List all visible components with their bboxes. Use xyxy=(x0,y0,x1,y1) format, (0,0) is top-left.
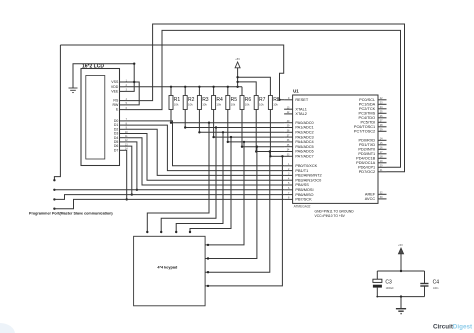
pin 39 PA1/ADC1 xyxy=(284,125,314,130)
svg-text:PC1/SDA: PC1/SDA xyxy=(359,103,376,107)
resistor R6 10k xyxy=(240,96,251,110)
wire cap bottom rail xyxy=(376,295,424,297)
wire keypad col 1 to PA0 xyxy=(146,122,210,234)
pin 20 PD6/ICP1 xyxy=(358,165,386,170)
svg-text:PC0/SCL: PC0/SCL xyxy=(359,98,376,102)
svg-text:Digest: Digest xyxy=(453,323,473,330)
svg-text:PB5/MOSI: PB5/MOSI xyxy=(295,188,313,192)
svg-text:PB1/T1: PB1/T1 xyxy=(295,169,308,173)
svg-text:PA3/ADC3: PA3/ADC3 xyxy=(295,135,313,139)
svg-text:PB7/SCK: PB7/SCK xyxy=(295,198,312,202)
pin 16 PD2/INT0 xyxy=(358,147,386,152)
resistor R7 10k xyxy=(254,96,265,110)
wire R7 to PA6 xyxy=(255,110,284,153)
svg-text:C3: C3 xyxy=(385,279,392,285)
svg-text:PA5/ADC5: PA5/ADC5 xyxy=(295,145,313,149)
svg-text:PC5/TDI: PC5/TDI xyxy=(360,121,375,125)
wire R5 to PA4 xyxy=(227,110,285,144)
ground symbol (decoupling) xyxy=(396,297,406,314)
svg-text:10k: 10k xyxy=(231,103,236,107)
svg-text:PA6/ADC6: PA6/ADC6 xyxy=(295,150,313,154)
wire LCD RS to PD7 xyxy=(125,24,405,172)
pin 14 PD0/RXD xyxy=(359,138,387,143)
resistor R5 10k xyxy=(226,96,237,110)
wire R6 to PA5 xyxy=(241,110,284,148)
svg-text:PD7/OC2: PD7/OC2 xyxy=(359,170,375,174)
svg-text:PA2/ADC2: PA2/ADC2 xyxy=(295,131,313,135)
pin 34 PA6/ADC6 xyxy=(284,149,314,154)
wire R3 to PA2 xyxy=(198,110,284,134)
wire +5V tap to R7 xyxy=(236,81,256,96)
ground symbol (LCD) xyxy=(69,88,78,93)
pin 9 RESET xyxy=(284,97,309,102)
pin 22 PC0/SCL xyxy=(359,97,386,102)
pin 18 PD4/OC1B xyxy=(356,156,386,161)
resistor R1 10k xyxy=(169,96,180,110)
pin 4 PB3/AIN1/OC0 xyxy=(284,177,321,182)
wire programmer bus xyxy=(53,45,60,210)
svg-text:PD4/OC1B: PD4/OC1B xyxy=(356,157,375,161)
svg-text:GND=PIN11 TO GROUND: GND=PIN11 TO GROUND xyxy=(315,209,355,213)
wire cap top rail xyxy=(377,270,424,272)
svg-text:PD5/OC1A: PD5/OC1A xyxy=(356,161,375,165)
logo CircuitDigest xyxy=(433,323,473,330)
wire keypad col 2 to PA1 xyxy=(160,126,217,233)
svg-text:PD0/RXD: PD0/RXD xyxy=(359,139,376,143)
pin 7 PB6/MISO xyxy=(284,192,313,197)
svg-text:AVCC: AVCC xyxy=(365,197,376,201)
svg-text:PD6/ICP1: PD6/ICP1 xyxy=(358,166,375,170)
pin 29 PC7/TOSC2 xyxy=(354,129,387,134)
svg-text:PA7/ADC7: PA7/ADC7 xyxy=(295,155,313,159)
svg-text:C4: C4 xyxy=(433,279,440,285)
svg-text:PA4/ADC4: PA4/ADC4 xyxy=(295,140,314,144)
wire LCD D6 to PB6 xyxy=(125,146,134,196)
svg-text:XTAL1: XTAL1 xyxy=(295,107,306,111)
wire keypad row 4 to PA7 xyxy=(205,155,283,287)
svg-text:VEE: VEE xyxy=(111,90,119,94)
svg-text:D7: D7 xyxy=(114,148,119,152)
svg-text:ATMEGA32: ATMEGA32 xyxy=(294,205,311,209)
pin 2 PB1/T1 xyxy=(284,168,308,173)
svg-text:PD3/INT1: PD3/INT1 xyxy=(358,152,375,156)
capacitor C3 1000uF xyxy=(373,271,394,297)
svg-text:PC4/TDO: PC4/TDO xyxy=(359,116,376,120)
svg-text:+5V: +5V xyxy=(398,243,403,247)
decor xyxy=(0,323,15,333)
svg-text:PC3/TMS: PC3/TMS xyxy=(359,112,376,116)
svg-text:U1: U1 xyxy=(293,89,299,94)
svg-text:RW: RW xyxy=(113,103,119,107)
svg-text:XTAL2: XTAL2 xyxy=(295,112,306,116)
wire programmer MISO to PB6 xyxy=(54,195,284,200)
svg-text:10k: 10k xyxy=(174,103,179,107)
wire LCD D5 to PB5 xyxy=(125,142,139,191)
svg-text:16*2 LCD: 16*2 LCD xyxy=(82,64,104,70)
svg-text:PD2/INT0: PD2/INT0 xyxy=(358,148,375,152)
pin 23 PC1/SDA xyxy=(359,102,387,107)
svg-text:PB3/AIN1/OC0: PB3/AIN1/OC0 xyxy=(295,178,321,182)
pin 28 PC6/TOSC1 xyxy=(354,124,387,129)
wire programmer SCK to PB7 xyxy=(54,199,284,208)
svg-text:PD1/TXD: PD1/TXD xyxy=(359,143,375,147)
pin 40 PA0/ADC0 xyxy=(284,120,314,125)
pin 21 PD7/OC2 xyxy=(359,169,387,174)
wire VSS/VEE/RW ground net xyxy=(73,63,139,105)
svg-text:10k: 10k xyxy=(188,103,193,107)
pin 33 PA7/ADC7 xyxy=(284,154,314,159)
svg-text:PC2/TCK: PC2/TCK xyxy=(359,107,376,111)
pin 37 PA3/ADC3 xyxy=(284,134,314,139)
power +5V (resistor bank) xyxy=(235,57,240,87)
wire R8 to PA7 xyxy=(269,110,284,158)
svg-text:10k: 10k xyxy=(273,103,278,107)
svg-text:100n: 100n xyxy=(433,287,439,290)
wire R4 to PA3 xyxy=(212,110,284,139)
svg-text:PC7/TOSC2: PC7/TOSC2 xyxy=(354,130,375,134)
power +5V (decoupling) xyxy=(398,243,403,271)
wire LCD E to PD6 xyxy=(125,30,401,167)
wire LCD D4 to PB4 xyxy=(125,138,285,185)
wire R2 to PA1 xyxy=(184,110,284,129)
svg-text:PB4/SS: PB4/SS xyxy=(295,183,309,187)
wire LCD D2 to PB2 xyxy=(125,129,285,175)
pin 36 PA4/ADC4 xyxy=(284,139,314,144)
wire keypad row 1 to PA4 xyxy=(205,141,245,246)
wire keypad col 4 to PA3 xyxy=(189,136,232,233)
svg-text:PA0/ADC0: PA0/ADC0 xyxy=(295,121,313,125)
svg-text:PB0/T0/XCK: PB0/T0/XCK xyxy=(295,164,317,168)
resistor R4 10k xyxy=(212,96,223,110)
svg-text:RESET: RESET xyxy=(295,98,308,102)
pin 15 PD1/TXD xyxy=(359,142,387,147)
pin 27 PC5/TDI xyxy=(360,120,386,125)
keypad KP1 4*4 xyxy=(134,236,206,305)
svg-text:AREF: AREF xyxy=(365,193,376,197)
resistor R2 10k xyxy=(183,96,194,110)
microcontroller U1 ATMEGA32 xyxy=(293,89,378,209)
wire +5V tap to R8 xyxy=(236,76,270,96)
svg-text:10k: 10k xyxy=(245,103,250,107)
pin 12 XTAL2 xyxy=(284,111,307,116)
wire programmer RESET xyxy=(60,45,284,101)
pin 24 PC2/TCK xyxy=(359,106,387,111)
pin 35 PA5/ADC5 xyxy=(284,144,314,149)
capacitor C4 100n xyxy=(420,271,439,297)
pin 3 PB2/AIN0/INT2 xyxy=(284,173,322,178)
wire LCD D1 to PB1 xyxy=(125,125,285,171)
svg-text:PB2/AIN0/INT2: PB2/AIN0/INT2 xyxy=(295,174,321,178)
pin 17 PD3/INT1 xyxy=(358,151,386,156)
pin 5 PB4/SS xyxy=(284,182,309,187)
pin 32 AREF xyxy=(365,192,387,197)
svg-text:PB6/MISO: PB6/MISO xyxy=(295,193,313,197)
svg-text:PC6/TOSC1: PC6/TOSC1 xyxy=(354,125,375,129)
wire VDD +5V rail xyxy=(125,86,243,96)
svg-text:10k: 10k xyxy=(259,103,264,107)
pin 8 PB7/SCK xyxy=(284,197,312,202)
svg-text:PA1/ADC1: PA1/ADC1 xyxy=(295,126,313,130)
pin 25 PC3/TMS xyxy=(359,111,387,116)
svg-text:4*4 keypad: 4*4 keypad xyxy=(157,266,178,270)
wire keypad col 3 to PA2 xyxy=(175,131,224,233)
svg-text:10k: 10k xyxy=(202,103,207,107)
svg-text:VSS: VSS xyxy=(111,80,119,84)
pin 1 PB0/T0/XCK xyxy=(284,163,318,168)
svg-text:Circuit: Circuit xyxy=(433,323,454,330)
LCD module LCD1 16*2 xyxy=(81,64,128,166)
wire LCD D0 to PB0 xyxy=(125,121,285,166)
svg-text:+5V: +5V xyxy=(235,57,240,61)
pin 13 XTAL1 xyxy=(284,106,307,111)
svg-text:10k: 10k xyxy=(216,103,221,107)
svg-text:1000uF: 1000uF xyxy=(386,287,395,290)
svg-text:VDD: VDD xyxy=(111,85,119,89)
wire LCD D3 to PB3 xyxy=(125,134,285,181)
pin 38 PA2/ADC2 xyxy=(284,130,314,135)
pin 30 AVCC xyxy=(365,196,387,201)
wire keypad row 2 to PA5 xyxy=(205,146,258,260)
wire programmer MOSI to PB5 xyxy=(54,189,284,191)
pin 6 PB5/MOSI xyxy=(284,187,313,192)
pin 26 PC4/TDO xyxy=(359,115,387,120)
wire LCD D7 to PB7 xyxy=(125,150,128,200)
pin 19 PD5/OC1A xyxy=(356,160,386,165)
svg-text:Programmer Port(Master Slave c: Programmer Port(Master Slave communicati… xyxy=(29,212,113,216)
wire keypad row 3 to PA6 xyxy=(205,150,271,273)
svg-text:VCC=PIN10 TO +5V: VCC=PIN10 TO +5V xyxy=(315,214,346,218)
resistor R8 10k xyxy=(268,96,279,110)
note GND/VCC pins xyxy=(315,209,355,217)
resistor R3 10k xyxy=(197,96,208,110)
wire R1 to PA0 xyxy=(170,110,284,124)
